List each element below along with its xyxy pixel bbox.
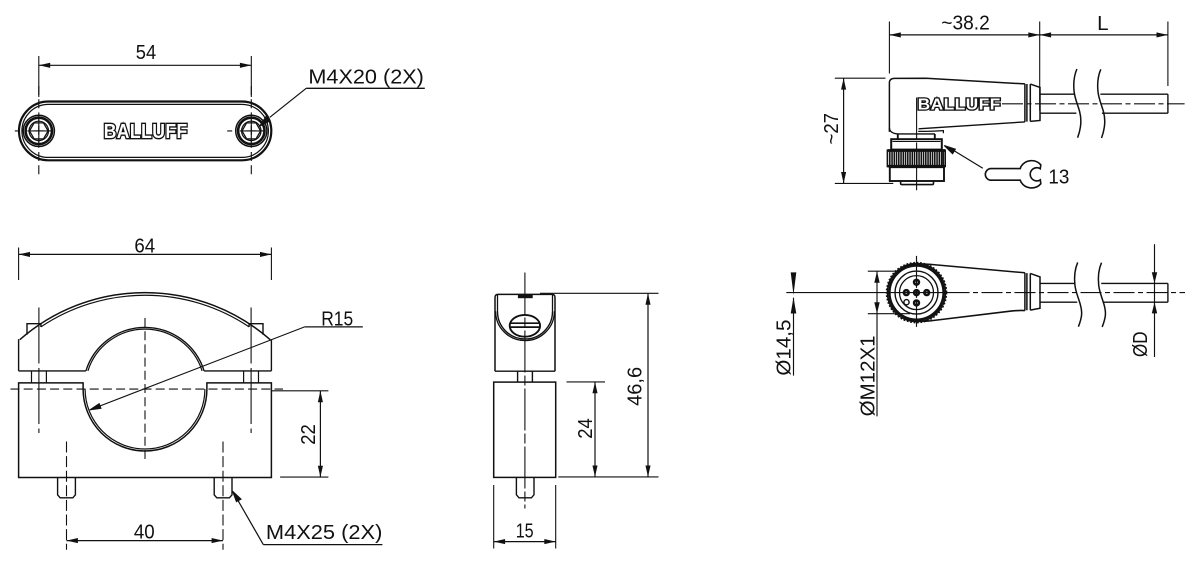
- label M4X25 underline: [263, 544, 382, 546]
- clamp vertical center line: [144, 318, 146, 463]
- lower body outline: [19, 383, 272, 478]
- screw right cross: [240, 120, 263, 143]
- cable break curve 1: [1074, 69, 1081, 138]
- dim 22 extension top: [271, 390, 329, 392]
- screw left ring: [26, 118, 52, 144]
- svg-text:~27: ~27: [820, 113, 843, 145]
- pocket left wall: [497, 294, 499, 311]
- pin center: [913, 289, 920, 296]
- cable break curve 2 (bottom view): [1098, 263, 1105, 327]
- plate outer outline: [19, 102, 271, 161]
- dim M12X1 extension bottom: [868, 313, 910, 315]
- svg-text:~38.2: ~38.2: [941, 11, 990, 34]
- knurl band sides: [887, 150, 945, 168]
- label M4X20 leader line: [270, 88, 306, 117]
- dim 22 dimension line: [319, 391, 321, 477]
- screw M4X20 right: outer circle: [236, 115, 267, 146]
- dim D line: [1154, 244, 1156, 357]
- dim M12X1 line: [876, 271, 878, 416]
- upper block bottom edge: [495, 370, 555, 372]
- pin left: [903, 289, 910, 296]
- connector body bottom contour: [904, 310, 1025, 321]
- center line horizontal left screw: [15, 130, 63, 132]
- label R15 arrowhead: [90, 404, 101, 410]
- svg-text:64: 64: [134, 235, 155, 258]
- arch top piece outer arc: [20, 293, 270, 340]
- flange ring lines (bottom view): [1025, 273, 1030, 311]
- dim M12X1 arrows: [874, 272, 879, 314]
- cable top lines (bottom view): [1040, 282, 1168, 284]
- pin bottom: [913, 299, 920, 306]
- pin holes (white dots): [905, 281, 928, 304]
- connector body lower contour: [918, 131, 943, 134]
- side bottom screw: [516, 477, 534, 497]
- svg-text:22: 22: [297, 424, 320, 445]
- cable break curve 2: [1098, 69, 1105, 138]
- screw left inner circle: [29, 121, 48, 140]
- dim 64 dimension line: [19, 253, 272, 255]
- hidden hole line right: [222, 442, 224, 550]
- center line vertical left screw: [38, 86, 40, 175]
- arch left edge: [18, 339, 20, 371]
- orientation hole: [904, 300, 909, 305]
- connector body underside diagonal: [919, 122, 1025, 129]
- dim 40 dimension line: [67, 540, 224, 542]
- screw left hex socket: [30, 123, 49, 139]
- dim 46,6 extension top: [540, 292, 659, 294]
- pin right: [923, 289, 930, 296]
- face knurl ring: [887, 263, 945, 321]
- face knurl teeth: [887, 263, 946, 322]
- label M4X25 arrowhead: [233, 491, 242, 502]
- dim 24 dimension line: [594, 382, 596, 477]
- lower block outline: [494, 382, 556, 477]
- cable top lines: [1040, 93, 1168, 95]
- svg-text:54: 54: [136, 41, 156, 64]
- dim D arrows: [1152, 272, 1157, 313]
- center line vertical right screw: [250, 86, 252, 175]
- svg-text:L: L: [1097, 12, 1108, 35]
- label M4X20 arrowhead: [260, 116, 270, 126]
- dim 15 extension right: [555, 485, 557, 549]
- flange cone: [1030, 84, 1040, 121]
- bottom screw right: [214, 478, 232, 498]
- pocket inner arc: [498, 312, 553, 340]
- nut center line: [916, 98, 918, 191]
- dim ~27 dimension line: [843, 78, 845, 183]
- screw head ellipse: [510, 315, 540, 337]
- pocket right wall: [552, 294, 554, 311]
- svg-text:BALLUFF: BALLUFF: [104, 121, 188, 143]
- clamp horizontal center line: [11, 388, 284, 390]
- dim ~38.2 extension left: [888, 22, 890, 74]
- dim 15 dimension line: [494, 541, 556, 543]
- face thread circle M12: [895, 271, 938, 314]
- nut neck: [898, 134, 935, 139]
- svg-text:40: 40: [134, 521, 155, 544]
- screw shaft line right: [250, 308, 252, 434]
- dim 54 extension line right: [250, 56, 252, 97]
- side view center line: [524, 273, 526, 509]
- dim L extension right: [1167, 22, 1169, 87]
- screw head slot lines: [510, 323, 540, 327]
- cable bottom lines (bottom view): [1040, 301, 1168, 303]
- upper block outline: [495, 294, 555, 371]
- dim 15 extension left: [493, 485, 495, 549]
- face horizontal center line: [786, 292, 948, 294]
- knurl band bottom edge: [887, 165, 945, 168]
- svg-text:ØM12X1: ØM12X1: [857, 335, 880, 416]
- dim 54 extension line left: [38, 56, 40, 97]
- dim 64 extension right: [270, 248, 272, 281]
- dim ~38.2 dimension line: [889, 34, 1039, 36]
- bottom screw left: [58, 478, 76, 498]
- svg-text:15: 15: [516, 520, 534, 543]
- neck left: [517, 371, 519, 382]
- cable end cap: [1167, 94, 1169, 113]
- flange cone (bottom view): [1030, 273, 1040, 310]
- screw right hex socket: [242, 123, 261, 139]
- pocket outer arc: [496, 311, 555, 340]
- knurl band top edge: [887, 149, 945, 152]
- label M4X20 underline: [306, 87, 425, 89]
- left gap spacer: [32, 371, 47, 383]
- right tab: [249, 324, 263, 335]
- cable center line: [1002, 103, 1185, 105]
- dim 22 extension bottom: [280, 476, 328, 478]
- nut lower band: [890, 167, 944, 181]
- wrench arrowhead: [944, 146, 955, 154]
- dim 14,5 line: [793, 298, 795, 376]
- svg-text:Ø14,5: Ø14,5: [772, 320, 795, 376]
- center line continuation right: [949, 292, 1186, 294]
- dim 64 extension left: [18, 248, 20, 281]
- face knurl ring band: [889, 265, 943, 319]
- dim ~38.2 extension right: [1039, 22, 1041, 111]
- dim ~27 extension top: [835, 77, 886, 79]
- svg-text:M4X25 (2X): M4X25 (2X): [266, 521, 383, 544]
- cable end cap (bottom view): [1167, 283, 1169, 302]
- upper bore inner arc: [88, 329, 202, 371]
- dim ~27 extension bottom: [835, 182, 894, 184]
- connector body bottom corner: [889, 128, 935, 134]
- dim 24 extension top: [567, 381, 606, 383]
- left tab: [27, 324, 41, 335]
- cable bottom lines: [1040, 112, 1168, 114]
- face inner circle: [900, 276, 934, 310]
- dim 14,5 lower arrow: [791, 297, 797, 313]
- center line horizontal right screw: [227, 130, 275, 132]
- dim 14,5 upper arrow: [791, 272, 797, 295]
- dim 46,6 extension bottom: [558, 476, 658, 478]
- neck right: [531, 371, 533, 382]
- screw shaft line left: [38, 308, 40, 434]
- plate inner outline: [22, 104, 269, 157]
- label R15 leader: [92, 327, 305, 409]
- upper bore outer arc: [86, 327, 204, 370]
- knurl stripes: [890, 152, 943, 166]
- label M4X25 leader: [235, 495, 263, 545]
- arch right edge: [270, 339, 272, 371]
- svg-text:M4X20 (2X): M4X20 (2X): [308, 65, 424, 88]
- right gap spacer: [244, 371, 259, 383]
- flange ring lines: [1025, 84, 1030, 122]
- cable break curve 1 (bottom view): [1075, 262, 1082, 326]
- dim M12X1 extension top: [868, 270, 900, 272]
- screw slot notch (black): [518, 294, 533, 298]
- face vertical center line: [916, 256, 918, 327]
- screw M4X20 left: outer circle: [23, 115, 54, 146]
- pin top: [913, 279, 920, 286]
- label R15 underline: [305, 326, 363, 328]
- dim 46,6 dimension line: [647, 293, 649, 477]
- arch inner arc: [41, 295, 249, 327]
- nut hex band: [891, 139, 942, 149]
- svg-text:ØD: ØD: [1129, 332, 1152, 358]
- screw right inner circle: [242, 121, 261, 140]
- svg-text:46,6: 46,6: [624, 367, 647, 406]
- hidden hole line left: [66, 442, 68, 550]
- screw right ring: [238, 118, 264, 144]
- svg-text:24: 24: [574, 418, 597, 439]
- wrench symbol: [985, 161, 1040, 188]
- connector body outline: [889, 78, 1025, 132]
- svg-text:BALLUFF: BALLUFF: [918, 96, 1001, 113]
- dim L dimension line: [1040, 34, 1168, 36]
- lower bore inner arc: [85, 389, 205, 449]
- arch bottom edge right: [204, 370, 271, 372]
- nut hex band inner line: [893, 141, 941, 143]
- wrench leader line: [948, 147, 983, 168]
- arch bottom edge left: [19, 370, 86, 372]
- nut bottom step: [901, 181, 934, 185]
- screw left cross: [27, 120, 50, 143]
- connector body top contour: [904, 264, 1025, 273]
- dim 54 dimension line: [39, 64, 252, 66]
- svg-text:13: 13: [1048, 165, 1069, 188]
